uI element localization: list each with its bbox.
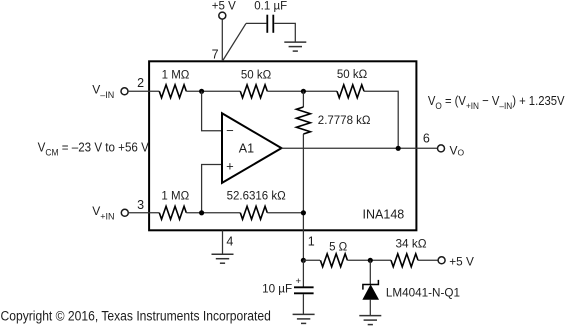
resistor 50 kohm (right) [337, 85, 364, 98]
svg-text:2: 2 [137, 76, 144, 90]
svg-text:VO: VO [450, 143, 465, 157]
svg-text:VO = (V+IN − V–IN) + 1.235V: VO = (V+IN − V–IN) + 1.235V [428, 93, 565, 111]
resistor 5 ohm [320, 254, 347, 267]
IC boundary box INA148 [149, 61, 416, 230]
svg-text:34 kΩ: 34 kΩ [395, 237, 426, 251]
svg-text:7: 7 [212, 47, 219, 61]
svg-text:1: 1 [308, 235, 315, 249]
wire to noninverting node [186, 212, 240, 214]
svg-text:50 kΩ: 50 kΩ [241, 69, 272, 81]
svg-text:INA148: INA148 [363, 208, 405, 222]
wire 10uF to ground [302, 294, 304, 314]
ground (zener) [359, 316, 381, 325]
node dot E (output/feedback junction) [396, 146, 401, 151]
wire node F to 5 ohm [303, 259, 320, 261]
svg-text:50 kΩ: 50 kΩ [337, 69, 368, 81]
wire pin 4 to ground [222, 231, 224, 254]
ground (pin 4) [212, 254, 234, 263]
terminal +5V bottom [438, 257, 445, 264]
wire zener node down to zener [369, 260, 371, 284]
svg-text:10 µF: 10 µF [262, 282, 292, 295]
wire 52.6316k to ref net [267, 212, 303, 214]
wire to capacitor C 0.1uF [246, 22, 266, 24]
svg-text:6: 6 [423, 132, 430, 146]
terminal V-IN [121, 88, 128, 95]
capacitor 10uF plates [294, 287, 314, 293]
svg-text:VCM = –23 V to +56 V: VCM = –23 V to +56 V [38, 140, 150, 158]
svg-text:−: − [226, 123, 234, 138]
svg-text:+5 V: +5 V [449, 254, 474, 268]
resistor 50 kohm (left) [240, 85, 267, 98]
wire resistor bottom down to bottom node [302, 134, 304, 260]
resistor 1 Mohm (pin 2) [159, 85, 186, 98]
svg-text:V–IN: V–IN [92, 83, 114, 100]
svg-text:+: + [296, 276, 302, 287]
svg-text:1 MΩ: 1 MΩ [161, 190, 189, 202]
wire node to second 50k [267, 90, 337, 92]
terminal V+IN [121, 209, 128, 216]
svg-text:V+IN: V+IN [92, 204, 114, 221]
wire noninverting input [202, 165, 222, 213]
node dot F (bottom ref node) [301, 258, 306, 263]
terminal VO [438, 145, 445, 152]
svg-text:5 Ω: 5 Ω [329, 242, 348, 254]
label output equation [428, 93, 565, 111]
wire op-amp output to pin 6 [282, 147, 438, 149]
wire to summing node [186, 90, 240, 92]
wire capacitor to ground [274, 23, 295, 42]
svg-text:Copyright © 2016, Texas Instru: Copyright © 2016, Texas Instruments Inco… [1, 308, 271, 324]
node dot A (inverting input node) [199, 89, 204, 94]
label VCM range [38, 140, 150, 158]
wire 5 ohm to zener node [347, 259, 391, 261]
wire diagonal pin7 to bypass cap [223, 23, 246, 60]
resistor 2.7778 kohm (vertical) [296, 107, 310, 134]
svg-text:A1: A1 [239, 141, 254, 155]
wire +5V supply to pin 7 [221, 19, 223, 61]
ground (bypass cap) [284, 42, 306, 51]
capacitor 0.1uF plates [267, 15, 273, 33]
svg-text:4: 4 [226, 234, 233, 248]
zener diode LM4041-N-Q1 cathode bar [363, 280, 379, 290]
resistor 52.6316 kohm [240, 206, 267, 219]
resistor 1 Mohm (pin 3) [159, 206, 186, 219]
zener diode body [363, 285, 378, 299]
terminal +5V top [219, 12, 226, 19]
svg-text:1 MΩ: 1 MΩ [162, 69, 190, 81]
wire V-IN input [128, 90, 159, 92]
op-amp A1 [222, 113, 282, 183]
node dot D (ref node) [301, 210, 306, 215]
wire node F down to 10uF cap [302, 260, 304, 286]
node dot C (noninverting node) [199, 210, 204, 215]
resistor 34 kohm [391, 254, 418, 267]
vertical net: 50k junction to ref pin 1 [302, 91, 304, 107]
wire 34k to +5V terminal [418, 259, 438, 261]
node dot B (50k/50k junction) [301, 89, 306, 94]
svg-text:0.1 µF: 0.1 µF [254, 0, 287, 12]
wire zener to ground [369, 299, 371, 315]
svg-text:+5 V: +5 V [212, 0, 236, 12]
svg-text:3: 3 [137, 198, 144, 212]
wire V+IN input [128, 212, 159, 214]
svg-text:2.7778 kΩ: 2.7778 kΩ [318, 115, 371, 127]
node dot G (zener node) [368, 258, 373, 263]
wire inverting input [202, 91, 222, 130]
ground (10uF) [293, 314, 315, 323]
wire 50k right to feedback corner [364, 91, 398, 148]
svg-text:52.6316 kΩ: 52.6316 kΩ [227, 190, 287, 202]
copyright [1, 308, 271, 324]
svg-text:+: + [226, 158, 234, 173]
svg-text:LM4041-N-Q1: LM4041-N-Q1 [386, 287, 460, 300]
